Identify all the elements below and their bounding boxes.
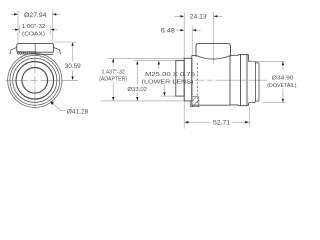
- svg-text:(COAX): (COAX): [22, 32, 45, 38]
- svg-text:(LOWER LENS): (LOWER LENS): [142, 80, 194, 86]
- svg-text:[ADAPTER]: [ADAPTER]: [99, 76, 127, 82]
- svg-text:Ø41.28: Ø41.28: [67, 109, 89, 116]
- svg-text:30.59: 30.59: [65, 63, 82, 70]
- svg-text:Ø34.90: Ø34.90: [272, 75, 294, 81]
- svg-text:(DOVETAIL): (DOVETAIL): [267, 83, 296, 89]
- svg-text:Ø27.94: Ø27.94: [24, 12, 47, 19]
- svg-text:M25.00 X 0.75: M25.00 X 0.75: [145, 72, 196, 78]
- svg-text:24.13: 24.13: [190, 14, 207, 21]
- svg-text:1.437"-32: 1.437"-32: [101, 69, 125, 75]
- svg-text:Ø33.02: Ø33.02: [127, 87, 147, 93]
- svg-text:6.48: 6.48: [161, 27, 175, 34]
- svg-text:52.71: 52.71: [213, 119, 230, 126]
- svg-text:1.00"-32: 1.00"-32: [22, 24, 46, 30]
